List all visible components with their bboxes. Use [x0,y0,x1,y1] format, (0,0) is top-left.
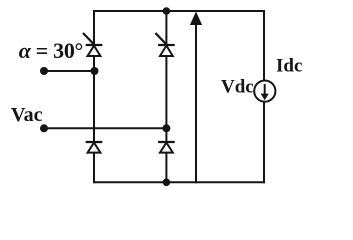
svg-text:α = 30°: α = 30° [19,38,84,63]
svg-text:Vdc: Vdc [221,77,254,98]
svg-text:Vac: Vac [11,104,43,126]
svg-text:Idc: Idc [276,56,302,77]
